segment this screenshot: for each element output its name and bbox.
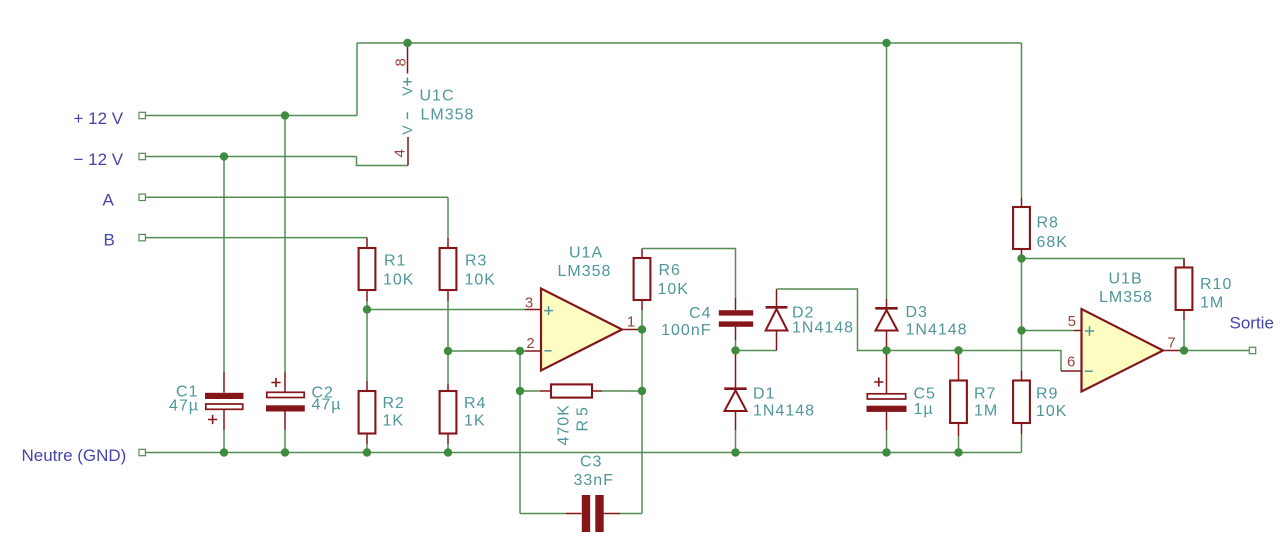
resistor R2 body — [359, 391, 376, 434]
svg-text:LM358: LM358 — [1099, 289, 1153, 306]
diode D2 anode lead — [776, 331, 778, 351]
svg-text:D1: D1 — [753, 386, 775, 403]
wire +12V riser to top rail — [356, 43, 358, 116]
svg-text:4: 4 — [392, 149, 409, 157]
wire C2 to GND — [284, 430, 286, 453]
svg-text:1M: 1M — [1200, 295, 1224, 312]
diode D3 cathode bar — [875, 307, 897, 310]
wire pin5 column — [1021, 259, 1023, 372]
wire R7 to GND — [958, 436, 960, 453]
resistor R6 body — [634, 258, 651, 300]
wire pin 3 net — [367, 309, 525, 311]
wire top V+ rail — [357, 42, 1022, 44]
capacitor C4 top plate — [719, 310, 753, 315]
resistor R6 top lead — [641, 249, 643, 259]
svg-text:8: 8 — [393, 58, 410, 66]
capacitor C4 top lead — [735, 298, 737, 310]
diode D1 cathode bar — [724, 387, 746, 390]
resistor R5 right lead — [592, 390, 602, 392]
svg-text:R8: R8 — [1037, 215, 1059, 232]
wire R5 left — [520, 390, 540, 392]
resistor R8 body — [1013, 207, 1030, 249]
svg-text:10K: 10K — [383, 272, 414, 289]
capacitor C2 bottom lead — [284, 412, 286, 431]
resistor R9 body — [1013, 381, 1030, 424]
junction pin2 / feedback column — [516, 347, 524, 355]
svg-text:1N4148: 1N4148 — [792, 320, 854, 337]
wire C4 to D1/D2 node — [735, 340, 737, 351]
capacitor C5 plus mark — [874, 377, 883, 386]
wire C3 right approach — [620, 513, 642, 515]
wire R2 to GND — [366, 444, 368, 453]
resistor R3 body — [440, 248, 457, 290]
wire -12V horizontal — [145, 156, 356, 158]
node B label square — [139, 234, 145, 240]
resistor R3 bottom lead — [447, 290, 449, 301]
svg-text:10K: 10K — [658, 281, 689, 298]
junction output U1B node — [1180, 346, 1188, 354]
resistor R8 top lead — [1021, 198, 1023, 207]
svg-text:470K: 470K — [556, 404, 573, 445]
op-amp U1A pin 1 output stub — [622, 329, 642, 331]
op-amp U1B pin 6 stub — [1061, 370, 1082, 372]
node GND label square — [139, 449, 145, 455]
resistor R9 top lead — [1021, 371, 1023, 381]
junction top rail / D3 column — [882, 39, 890, 47]
node A label square — [139, 194, 145, 200]
svg-text:5: 5 — [1068, 313, 1076, 330]
wire B horizontal — [145, 237, 367, 239]
svg-text:R1: R1 — [384, 253, 406, 270]
svg-text:R10: R10 — [1200, 276, 1232, 293]
node Sortie label square — [1249, 347, 1255, 353]
svg-text:1K: 1K — [383, 413, 405, 430]
op-amp U1B pin 7 output stub — [1163, 350, 1184, 352]
svg-text:R9: R9 — [1036, 386, 1058, 403]
resistor R7 bottom lead — [958, 423, 960, 436]
capacitor C2 top plate — [267, 392, 304, 397]
wire A drop to R3 — [447, 197, 449, 238]
svg-text:68K: 68K — [1037, 234, 1068, 251]
resistor R2 bottom lead — [366, 434, 368, 445]
resistor R4 bottom lead — [447, 434, 449, 445]
wire C5 to GND — [886, 430, 888, 453]
diode D2 cathode lead — [776, 289, 778, 307]
svg-text:1N4148: 1N4148 — [753, 403, 815, 420]
resistor R1 bottom lead — [366, 290, 368, 301]
capacitor C1 top lead — [223, 372, 225, 393]
capacitor C4 bottom lead — [735, 327, 737, 340]
junction R4 / GND — [444, 448, 452, 456]
junction pin5 node — [1017, 326, 1025, 334]
svg-text:C5: C5 — [914, 386, 936, 403]
op-amp U1A pin 2 stub — [525, 350, 541, 352]
wire node to D2 anode — [736, 350, 777, 352]
resistor R4 top lead — [447, 384, 449, 391]
junction C2 / GND — [281, 448, 289, 456]
resistor R5 left lead — [540, 390, 551, 392]
svg-text:Neutre (GND): Neutre (GND) — [22, 446, 127, 465]
capacitor C5 top plate — [867, 394, 905, 399]
resistor R5 body — [551, 384, 592, 397]
svg-text:10K: 10K — [465, 272, 496, 289]
wire D1 to GND — [735, 430, 737, 453]
svg-text:47µ: 47µ — [312, 397, 342, 414]
op-amp U1B plus input mark — [1085, 326, 1094, 335]
wire R6 top to C4 — [642, 249, 736, 299]
svg-text:C4: C4 — [689, 305, 711, 322]
svg-text:7: 7 — [1167, 335, 1175, 352]
capacitor C5 bottom lead — [886, 412, 888, 430]
junction C5 / GND — [882, 448, 890, 456]
svg-text:Sortie: Sortie — [1230, 314, 1274, 333]
op-amp U1C power pin 8 V+ — [407, 43, 409, 74]
svg-text:R2: R2 — [383, 395, 405, 412]
wire R9 to GND rail end — [1021, 434, 1023, 453]
diode D3 cathode lead — [886, 299, 888, 308]
wire feedback column (pin2 to C3) — [519, 351, 521, 514]
resistor R9 bottom lead — [1021, 423, 1023, 434]
wire GND rail — [145, 452, 1021, 454]
svg-text:D3: D3 — [906, 304, 928, 321]
op-amp U1A pin 3 stub — [525, 309, 541, 311]
diode D1 cathode lead — [735, 351, 737, 389]
junction C4/D1/D2 node — [731, 346, 739, 354]
diode D1 anode lead — [735, 411, 737, 430]
svg-text:V: V — [399, 85, 415, 95]
resistor R7 body — [950, 381, 967, 424]
wire R1 to node — [366, 301, 368, 381]
wire node row to pin 6 jog — [887, 351, 1062, 372]
capacitor C4 bottom plate — [719, 321, 753, 326]
svg-text:3: 3 — [525, 295, 533, 312]
svg-text:1µ: 1µ — [914, 401, 934, 418]
svg-text:U1B: U1B — [1109, 271, 1143, 288]
resistor R2 top lead — [366, 381, 368, 391]
svg-text:1M: 1M — [974, 403, 998, 420]
svg-text:R5: R5 — [575, 403, 592, 431]
svg-text:10K: 10K — [1036, 403, 1067, 420]
svg-text:33nF: 33nF — [574, 472, 614, 489]
resistor R4 body — [440, 391, 457, 434]
resistor R8 bottom lead — [1021, 249, 1023, 259]
junction output U1A node — [638, 325, 646, 333]
diode D3 anode lead — [886, 331, 888, 351]
capacitor C3 left plate — [582, 495, 590, 532]
wire R8 column from top rail — [1021, 43, 1023, 198]
op-amp U1A plus input mark — [544, 306, 553, 315]
junction top rail / U1C pin 8 — [403, 39, 411, 47]
wire R3 to R4 — [447, 301, 449, 384]
op-amp U1A body — [541, 289, 622, 371]
wire C1 column upper — [223, 157, 225, 373]
capacitor C1 bottom lead — [223, 409, 225, 430]
capacitor C3 right plate — [595, 495, 603, 532]
svg-text:2: 2 — [526, 335, 534, 352]
wire D2 top to node row — [777, 289, 887, 351]
wire -12V jog to U1C pin 4 — [357, 157, 409, 166]
wire pin 5 net — [1022, 330, 1075, 332]
resistor R3 top lead — [447, 238, 449, 248]
wire +12V horizontal — [145, 115, 357, 117]
wire A horizontal — [145, 196, 448, 198]
capacitor C3 right lead — [604, 513, 620, 515]
wire C2 column upper — [284, 116, 286, 373]
svg-text:1: 1 — [627, 314, 635, 331]
resistor R1 top lead — [366, 238, 368, 248]
junction -12V / C1 column — [220, 152, 228, 160]
capacitor C5 bottom plate — [867, 406, 907, 412]
junction R5 right / output column — [638, 387, 646, 395]
node -12V label square — [139, 153, 145, 159]
diode D2 triangle — [766, 309, 788, 331]
svg-text:B: B — [104, 231, 115, 250]
wire C3 left approach — [520, 513, 566, 515]
capacitor C2 bottom plate — [266, 405, 305, 411]
resistor R6 bottom lead — [641, 300, 643, 310]
wire R8 to R10 — [1022, 259, 1185, 268]
node +12V label square — [139, 112, 145, 118]
capacitor C1 top plate — [205, 393, 244, 399]
op-amp U1B body — [1082, 309, 1164, 392]
wire R10 to output node — [1183, 320, 1185, 351]
diode D2 cathode bar — [766, 306, 788, 309]
resistor R1 body — [359, 248, 376, 290]
junction C1 / GND — [220, 448, 228, 456]
junction R7 / GND — [954, 448, 962, 456]
svg-text:1N4148: 1N4148 — [906, 322, 968, 339]
resistor R10 bottom lead — [1183, 310, 1185, 320]
svg-text:R7: R7 — [974, 386, 996, 403]
wire R6 bottom to output node — [641, 310, 643, 330]
wire D3 column from top rail — [886, 43, 888, 299]
capacitor C2 top lead — [284, 372, 286, 392]
svg-text:R6: R6 — [659, 262, 681, 279]
op-amp U1C power pin 4 V- — [407, 137, 409, 166]
junction feedback / R5 left — [516, 387, 524, 395]
resistor R10 top lead — [1183, 259, 1185, 268]
op-amp U1B pin 5 stub — [1074, 330, 1082, 332]
junction node / R7 — [954, 346, 962, 354]
svg-text:U1A: U1A — [569, 245, 603, 262]
wire C1 to GND — [223, 430, 225, 453]
svg-text:R3: R3 — [465, 253, 487, 270]
pin name V- — [406, 112, 408, 119]
svg-text:C3: C3 — [580, 454, 602, 471]
svg-text:LM358: LM358 — [421, 107, 475, 124]
svg-text:100nF: 100nF — [661, 322, 711, 339]
capacitor C1 bottom plate — [206, 404, 243, 409]
junction R2 / GND — [363, 448, 371, 456]
svg-text:A: A — [103, 190, 115, 209]
junction R3/R4/pin2 node — [444, 347, 452, 355]
diode D3 triangle — [876, 310, 898, 331]
junction R8 / R10 wire / pin5 column — [1017, 254, 1025, 262]
svg-text:LM358: LM358 — [558, 263, 612, 280]
wire R5 right — [602, 390, 642, 392]
wire R4 to GND — [447, 444, 449, 453]
svg-text:U1C: U1C — [420, 88, 455, 105]
svg-text:6: 6 — [1067, 354, 1075, 371]
svg-text:+ 12 V: + 12 V — [74, 109, 124, 128]
capacitor C5 top lead — [886, 351, 888, 394]
capacitor C2 plus mark — [271, 378, 280, 387]
junction +12V / C2 column — [281, 111, 289, 119]
op-amp U1B minus input mark — [1085, 370, 1093, 372]
capacitor C1 plus mark — [208, 415, 217, 424]
svg-text:47µ: 47µ — [169, 398, 199, 415]
wire output column down to C3 row — [641, 330, 643, 514]
op-amp U1A minus input mark — [544, 350, 551, 352]
svg-text:− 12 V: − 12 V — [74, 150, 124, 169]
junction D1 / GND — [731, 448, 739, 456]
resistor R7 top lead — [958, 351, 960, 381]
svg-text:V: V — [399, 124, 415, 134]
capacitor C3 left lead — [566, 513, 582, 515]
diode D1 triangle — [725, 390, 747, 411]
junction R1/R2/pin3 node — [363, 305, 371, 313]
svg-text:1K: 1K — [464, 413, 486, 430]
wire output to Sortie — [1184, 350, 1249, 352]
resistor R10 body — [1176, 268, 1193, 311]
junction D3/C5 node — [882, 346, 890, 354]
wire pin 2 net — [448, 350, 525, 352]
svg-text:R4: R4 — [464, 395, 486, 412]
pin name V+ — [403, 78, 411, 86]
